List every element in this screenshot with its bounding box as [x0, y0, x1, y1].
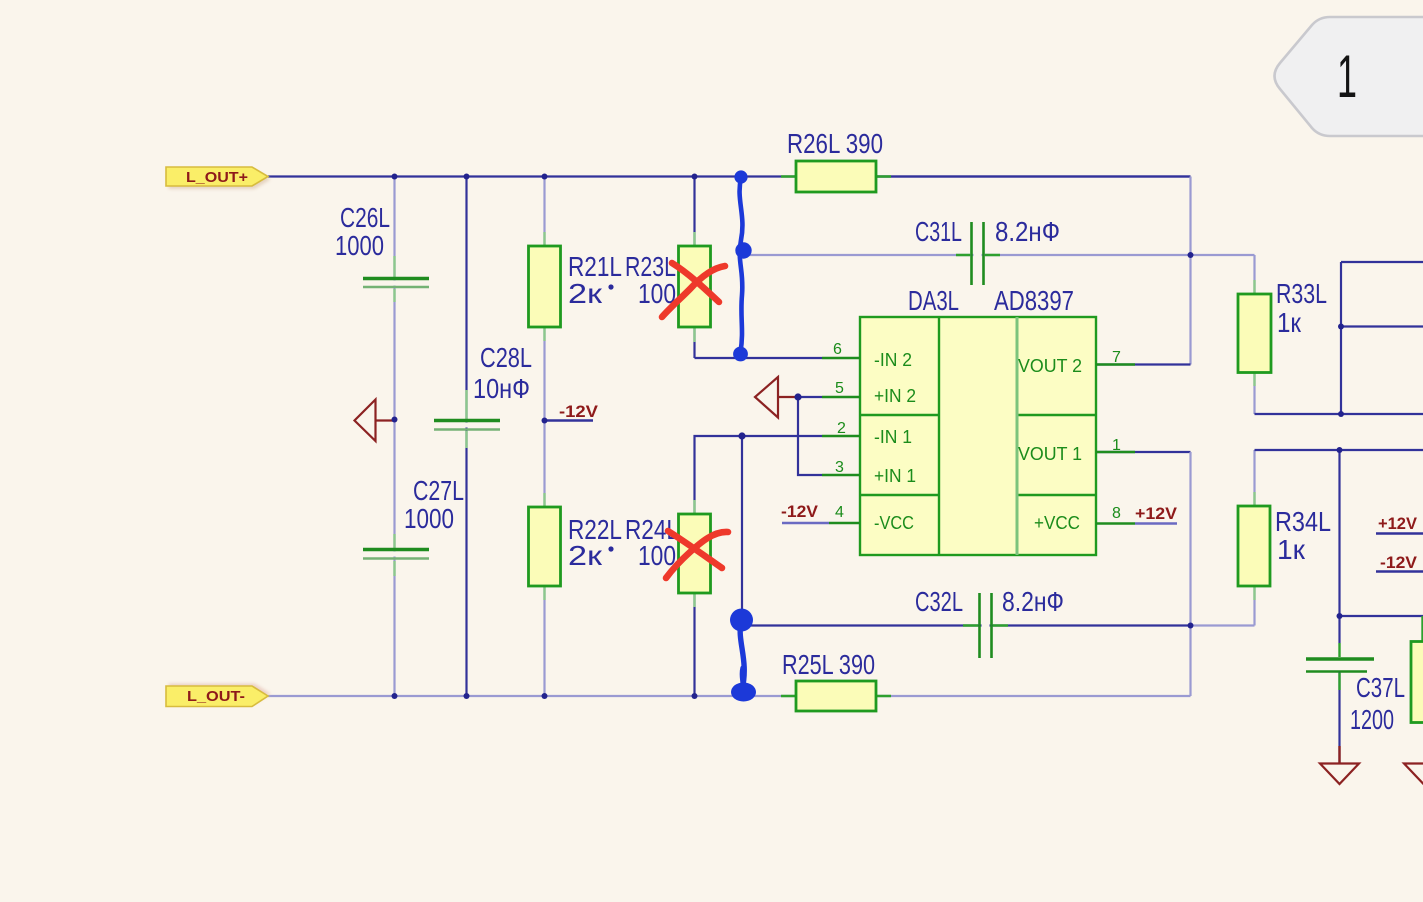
- capacitor C32L: [982, 622, 990, 630]
- hand-drawn blue dot middle: [735, 242, 751, 258]
- wire right vertical pin1 net down to L_OUT-: [1189, 452, 1191, 696]
- wire C37L bottom lead to ground: [1338, 672, 1340, 763]
- svg-text:3: 3: [835, 459, 844, 476]
- junction dots bottom rail: [392, 693, 398, 699]
- wire +IN1 branch from +IN2 node down to pin3: [798, 397, 822, 475]
- svg-text:5: 5: [835, 380, 844, 397]
- svg-text:R33L: R33L: [1276, 278, 1327, 309]
- capacitor C28L: [463, 423, 471, 428]
- svg-text:1к: 1к: [1277, 307, 1302, 338]
- wire R33L bottom lead to y414 rail: [1253, 373, 1255, 415]
- wire y450 rail to right edge: [1255, 449, 1423, 451]
- junction dot C32L right: [1188, 623, 1194, 629]
- svg-text:+IN 2: +IN 2: [874, 386, 916, 406]
- port arrow at C26L/C27L node: [355, 400, 395, 442]
- svg-text:2к: 2к: [568, 278, 603, 309]
- wire right vertical pin7 net: [1189, 177, 1191, 365]
- wire C32L net to R34L bottom: [1191, 624, 1255, 626]
- capacitor C31L leads: [956, 254, 1000, 256]
- capacitor C27L leads: [393, 534, 395, 576]
- ANNOT: [662, 17, 1423, 702]
- wire C31L horizontal net: [742, 254, 1255, 256]
- capacitor C27L: [391, 552, 399, 557]
- svg-text:C26L: C26L: [340, 202, 390, 233]
- wire -IN2 to pin6: [695, 357, 823, 359]
- hand-drawn blue dot lower-top: [730, 609, 753, 632]
- svg-text:7: 7: [1112, 349, 1121, 366]
- svg-text:DA3L: DA3L: [908, 285, 959, 316]
- svg-text:8.2нФ: 8.2нФ: [1002, 586, 1064, 617]
- resistor R21L leads: [543, 232, 545, 341]
- svg-text:1000: 1000: [335, 230, 384, 261]
- svg-text:2к: 2к: [568, 540, 603, 571]
- resistor R33L leads: [1253, 280, 1255, 386]
- red cross-out X over R24L: [666, 531, 728, 578]
- wire L_OUT- bottom rail: [268, 695, 1191, 697]
- junction dot +IN2 node: [794, 393, 801, 400]
- capacitor C28L leads: [465, 390, 467, 448]
- port arrow at +IN2 node: [755, 377, 798, 418]
- svg-text:C27L: C27L: [413, 475, 464, 506]
- resistor R24L leads: [693, 500, 695, 607]
- resistor R25L leads: [781, 695, 891, 697]
- junction dot -12V node: [542, 418, 548, 424]
- wire C32L horizontal net: [742, 624, 1191, 626]
- svg-text:1к: 1к: [1277, 534, 1306, 565]
- ground symbol partial right edge: [1404, 764, 1423, 785]
- pin 7 stub: [1096, 363, 1135, 365]
- svg-text:R26L 390: R26L 390: [787, 128, 883, 159]
- svg-text:R34L: R34L: [1275, 506, 1331, 537]
- hand-drawn blue blob lower-bottom: [731, 683, 756, 702]
- pin 5 stub: [822, 396, 860, 398]
- net stub +12V at pin8: [1135, 522, 1177, 525]
- wire right box middle y326: [1341, 325, 1423, 327]
- junction dot y616: [1337, 613, 1343, 619]
- wire node R24L-top junction down to C32L node: [741, 436, 743, 620]
- svg-text:VOUT 1: VOUT 1: [1018, 444, 1082, 464]
- svg-text:4: 4: [835, 504, 844, 521]
- resistor R33L: [1238, 294, 1271, 373]
- svg-text:-IN 2: -IN 2: [874, 350, 912, 370]
- net stub -12V at pin4: [782, 522, 829, 525]
- resistor R23L: [679, 246, 711, 327]
- pin 2 stub: [822, 435, 860, 437]
- wire vertical C26L/C27L branch: [393, 177, 395, 697]
- resistor R23L leads: [693, 232, 695, 342]
- capacitor C32L leads: [963, 624, 1008, 626]
- wire right box vertical bus x1341: [1340, 262, 1342, 414]
- svg-text:-12V: -12V: [559, 402, 599, 421]
- wire R34L top lead: [1253, 450, 1255, 506]
- svg-text:VOUT 2: VOUT 2: [1018, 356, 1082, 376]
- resistor R24L: [679, 514, 711, 593]
- node label L_OUT- shadow: [169, 684, 271, 705]
- svg-text:+VCC: +VCC: [1034, 513, 1080, 533]
- wire y414 rail to right edge: [1255, 413, 1423, 415]
- svg-text:L_OUT+: L_OUT+: [186, 169, 248, 186]
- hand-drawn blue dot top: [734, 170, 747, 183]
- hand-drawn blue dot bottom: [733, 347, 748, 362]
- junction dot y450: [1337, 447, 1343, 453]
- pin 8 stub: [1096, 522, 1135, 524]
- wire vertical C28L branch: [465, 177, 467, 697]
- wire L_OUT+ top rail: [268, 175, 1191, 177]
- resistor R34L leads: [1253, 492, 1255, 600]
- capacitor C37L leads: [1338, 643, 1340, 690]
- svg-text:R25L 390: R25L 390: [782, 649, 875, 680]
- net stub +12V right: [1376, 532, 1423, 535]
- pin 6 stub: [822, 357, 860, 359]
- node label L_OUT+ shadow: [169, 170, 271, 189]
- pin 3 stub: [822, 474, 860, 476]
- wire -IN1 from R24L top to pin2: [695, 436, 823, 514]
- svg-text:10нФ: 10нФ: [473, 373, 530, 404]
- svg-text:L_OUT-: L_OUT-: [187, 688, 245, 705]
- wire right box top y262: [1341, 261, 1423, 263]
- svg-text:6: 6: [833, 341, 842, 358]
- op-amp U1 DA3L body: [860, 317, 1096, 555]
- net stub -12V right: [1376, 570, 1423, 573]
- wire R34L bottom lead: [1253, 586, 1255, 626]
- ground symbol at C37L: [1338, 746, 1340, 764]
- svg-text:1000: 1000: [404, 503, 454, 534]
- svg-text:-IN 1: -IN 1: [874, 427, 912, 447]
- wire vertical R21L/R22L branch: [543, 177, 545, 697]
- svg-text:2: 2: [837, 420, 846, 437]
- svg-text:+12V: +12V: [1135, 504, 1178, 523]
- junction dot right box y326: [1338, 324, 1344, 330]
- net stub -12V at R21L: [545, 419, 593, 422]
- wire lower right vertical bus x1339.5: [1338, 450, 1340, 643]
- node label L_OUT+: [166, 167, 268, 186]
- svg-text:-12V: -12V: [1380, 553, 1418, 572]
- pin 1 stub: [1096, 451, 1135, 453]
- svg-text:8.2нФ: 8.2нФ: [995, 216, 1060, 247]
- hand-drawn blue stroke upper (R23L bypass): [740, 178, 743, 352]
- red cross-out X over R23L: [662, 263, 725, 317]
- junction dot C31L right: [1188, 252, 1194, 258]
- hand-drawn blue stroke lower (R24L bypass): [740, 622, 744, 690]
- svg-text:100: 100: [638, 540, 676, 571]
- junction dots top rail: [392, 174, 398, 180]
- svg-text:C32L: C32L: [915, 586, 963, 617]
- op-amp U1 internal dividers: [860, 317, 1096, 555]
- svg-text:+12V: +12V: [1378, 514, 1418, 533]
- svg-text:8: 8: [1112, 505, 1121, 522]
- wire pin7 horizontal: [1096, 363, 1191, 365]
- svg-text:-VCC: -VCC: [874, 513, 914, 533]
- resistor R26L: [796, 161, 876, 192]
- svg-text:AD8397: AD8397: [994, 285, 1074, 316]
- svg-text:1: 1: [1112, 437, 1121, 454]
- svg-text:1: 1: [1337, 43, 1357, 110]
- wire R33L top lead: [1253, 255, 1255, 294]
- resistor R22L leads: [543, 493, 545, 600]
- capacitor C26L: [391, 281, 399, 286]
- pin 4 stub: [829, 522, 860, 524]
- wire R26L feedback top: resistor to right vertical: [876, 175, 1191, 177]
- wire vertical R23L top lead: [693, 177, 695, 359]
- svg-text:+IN 1: +IN 1: [874, 466, 916, 486]
- capacitor C26L leads: [393, 256, 395, 302]
- wire y616 rail to right edge: [1340, 615, 1423, 617]
- resistor R34L: [1238, 506, 1270, 586]
- svg-text:-12V: -12V: [781, 502, 819, 521]
- node label L_OUT-: [166, 686, 268, 707]
- svg-text:C37L: C37L: [1356, 672, 1405, 703]
- resistor R26L leads: [781, 175, 891, 177]
- capacitor C37L: [1336, 661, 1344, 670]
- junction dot right box y414: [1338, 411, 1344, 417]
- sheet tab marker 1: [1275, 17, 1423, 136]
- capacitor C31L: [974, 251, 982, 259]
- wire +IN2 from arrow node to pin5: [798, 396, 822, 398]
- svg-text:1200: 1200: [1350, 704, 1394, 735]
- junction dot arrow node: [392, 417, 398, 423]
- junction dot -IN1 node: [738, 432, 745, 439]
- svg-text:C31L: C31L: [915, 216, 962, 247]
- resistor right-edge top lead: [1421, 616, 1423, 642]
- wire pin1 horizontal: [1096, 451, 1191, 453]
- wire R24L bottom lead: [693, 593, 695, 696]
- svg-text:C28L: C28L: [480, 342, 532, 373]
- resistor R38L partial at right edge: [1411, 642, 1423, 723]
- resistor R22L: [529, 507, 561, 586]
- resistor R21L: [529, 246, 561, 327]
- resistor R25L: [796, 681, 876, 711]
